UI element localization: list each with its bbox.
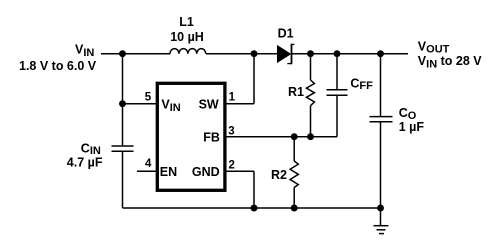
svg-text:3: 3 bbox=[228, 125, 234, 137]
svg-text:1 µF: 1 µF bbox=[399, 120, 425, 134]
svg-text:FB: FB bbox=[203, 131, 220, 145]
svg-text:5: 5 bbox=[145, 92, 152, 104]
svg-text:2: 2 bbox=[229, 160, 235, 172]
svg-text:10 µH: 10 µH bbox=[170, 30, 204, 44]
svg-text:D1: D1 bbox=[278, 27, 294, 41]
svg-text:1: 1 bbox=[229, 91, 236, 103]
svg-text:GND: GND bbox=[192, 165, 220, 179]
svg-text:L1: L1 bbox=[179, 15, 194, 29]
svg-text:1.8 V to 6.0 V: 1.8 V to 6.0 V bbox=[19, 59, 97, 73]
svg-text:EN: EN bbox=[160, 165, 177, 179]
svg-text:4: 4 bbox=[145, 158, 152, 170]
svg-text:R2: R2 bbox=[271, 168, 287, 182]
svg-text:4.7 µF: 4.7 µF bbox=[67, 156, 103, 170]
svg-text:R1: R1 bbox=[288, 85, 304, 99]
svg-text:SW: SW bbox=[199, 97, 219, 111]
